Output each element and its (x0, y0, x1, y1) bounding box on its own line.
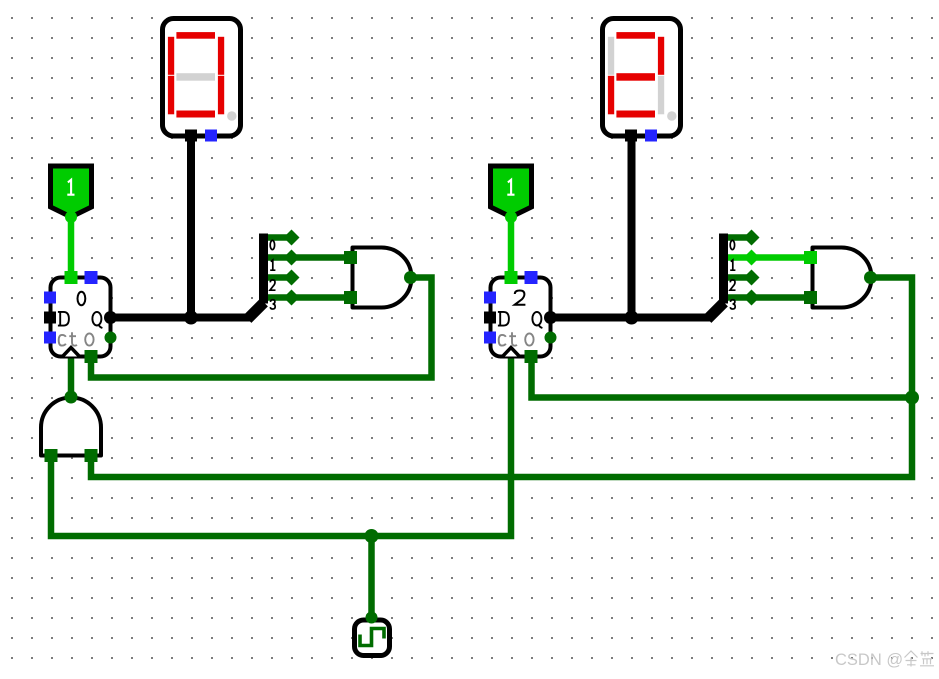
junction node clock branch (365, 529, 379, 543)
junction node Q1-display (184, 311, 198, 325)
wire splitter S1 bit1 to U1 (267, 254, 346, 261)
junction node Q2-display (625, 311, 639, 325)
splitter S1 (248, 230, 300, 320)
wire clock net (51, 358, 511, 536)
wire branch to counter CNT2 enable (532, 356, 913, 398)
svg-text:CSDN @: CSDN @ (835, 651, 903, 669)
wire U2 output net to U3 input (91, 278, 912, 478)
counter CNT2 (484, 271, 557, 363)
wire input pin IN2 to counter CNT2 (508, 212, 515, 277)
wire bus display DISP2 drop (628, 136, 636, 318)
clock CLK (355, 612, 390, 656)
wire bus Q1 to splitter S1 (111, 314, 251, 322)
input pin IN2 (491, 166, 532, 223)
wire input pin IN1 to counter CNT1 (68, 212, 75, 277)
junction node enable branch (905, 391, 919, 405)
counter CNT1 (44, 271, 117, 363)
wire splitter S2 bit3 to U2 (727, 294, 806, 301)
and gate U3 (41, 391, 101, 463)
and gate U1 (344, 248, 417, 308)
input pin IN1 (51, 166, 92, 223)
wire clock CLK drop (368, 536, 375, 618)
7-segment display DISP1 showing 0 (163, 19, 241, 142)
wire U1 output to counter CNT1 enable (91, 278, 432, 378)
and gate U2 (804, 248, 877, 308)
wire U3 output to counter CNT1 clock (68, 358, 75, 397)
wire splitter S1 bit3 to U1 (267, 294, 346, 301)
wire splitter S2 bit1 to U2 (high) (727, 254, 806, 261)
7-segment display DISP2 showing 2 (603, 19, 681, 142)
wire bus Q2 to splitter S2 (551, 314, 712, 322)
wire bus display DISP1 drop (187, 136, 195, 318)
splitter S2 (708, 230, 760, 320)
